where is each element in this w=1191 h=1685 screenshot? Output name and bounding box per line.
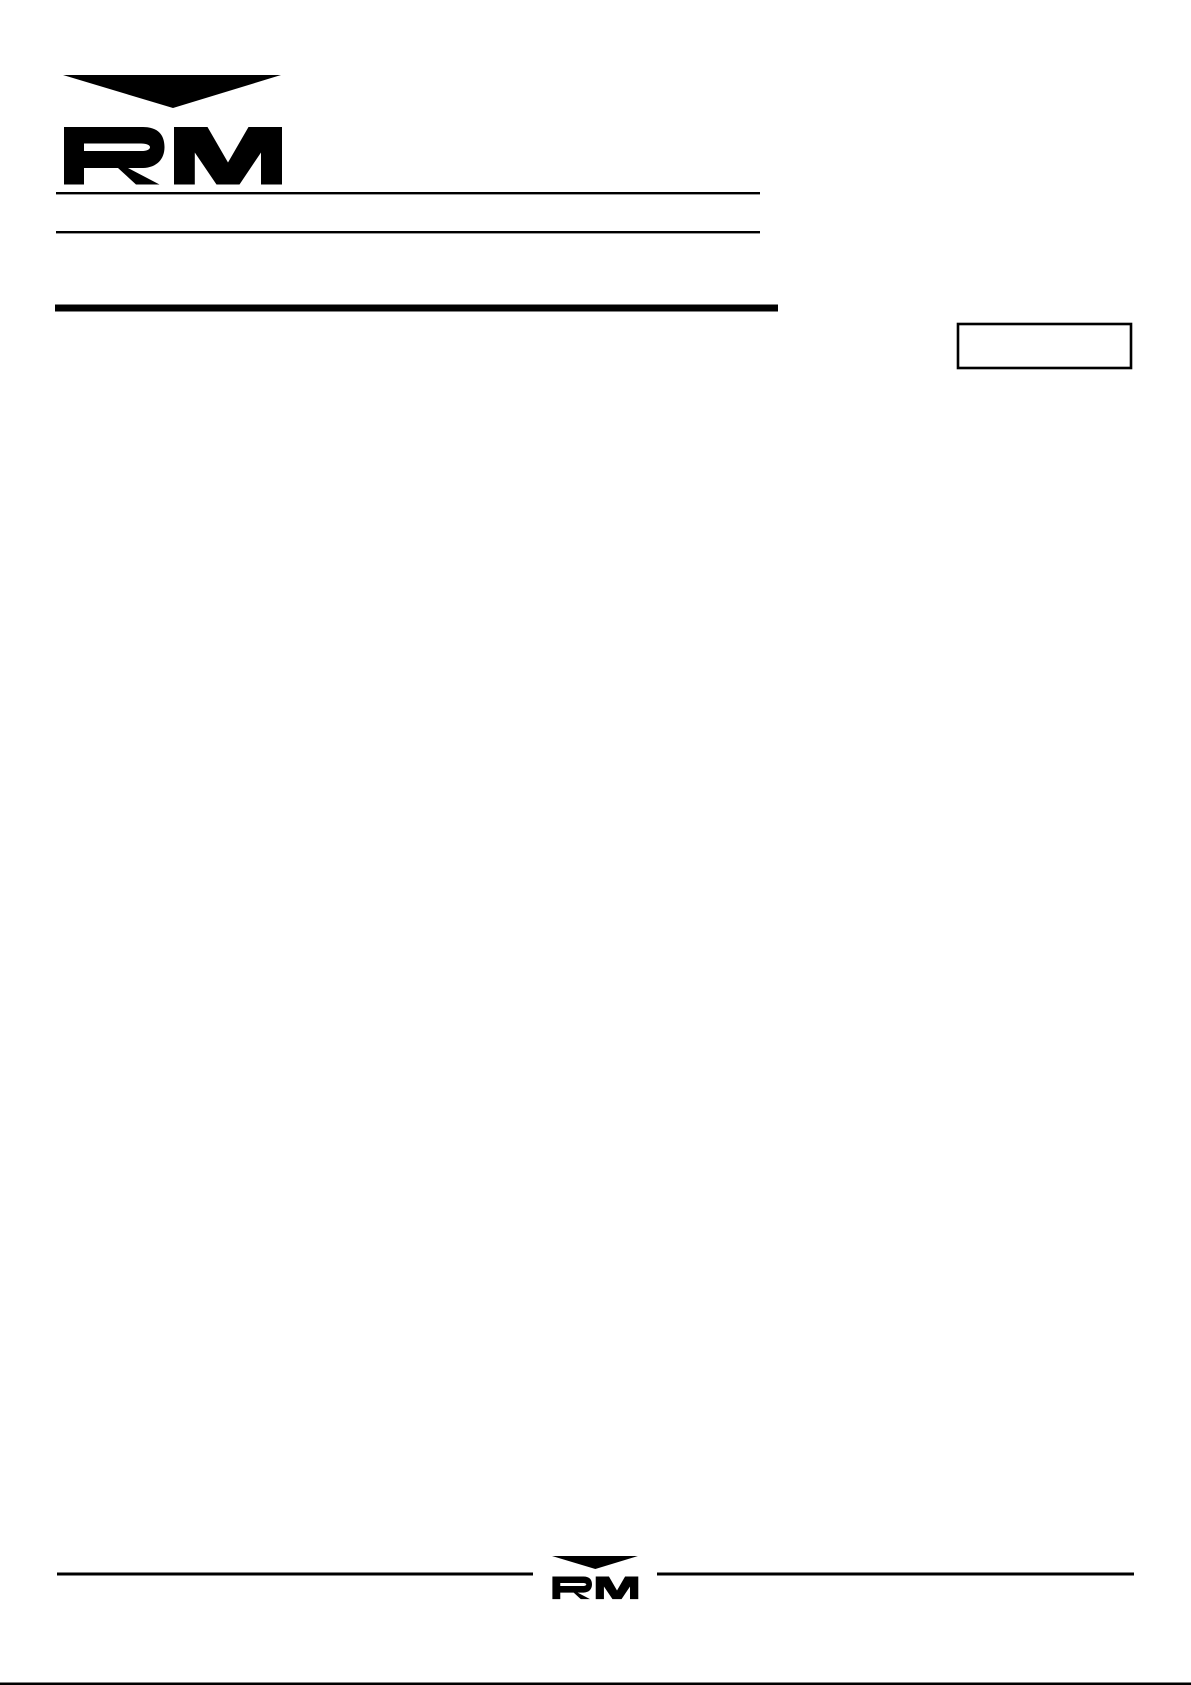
RM logo letter M (174, 127, 282, 185)
footer right rule (657, 1573, 1134, 1576)
header rule 1 (56, 192, 760, 194)
header rule 2 (56, 231, 760, 233)
footer left rule (57, 1573, 533, 1576)
footer RM logo (552, 1556, 638, 1599)
revision box (958, 324, 1131, 368)
title bar (55, 305, 778, 312)
RM logo letter R (64, 127, 165, 185)
footer bottom rule (0, 1683, 1191, 1685)
RM logo triangle (63, 75, 281, 108)
